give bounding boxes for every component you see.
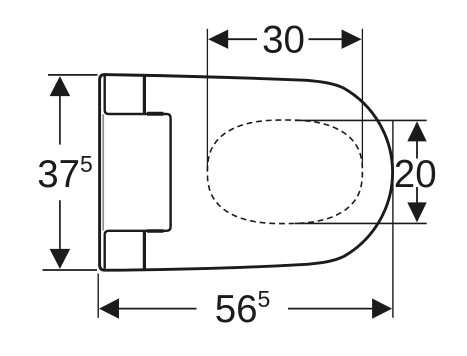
WC body outline xyxy=(100,75,393,271)
dim 20: down arrow xyxy=(407,202,426,222)
dashed bowl ellipse xyxy=(207,120,362,224)
mounting plate contour xyxy=(105,76,171,269)
dim 30: left extension line xyxy=(206,29,208,171)
dim 30: right extension line xyxy=(361,29,363,168)
dim 20: dimension line segments xyxy=(416,140,418,158)
dim 30: right arrow xyxy=(342,30,362,49)
dim 56.5: right arrow xyxy=(372,298,392,318)
hidden edge (gray) behind mounting plate xyxy=(102,114,104,230)
dim 56.5: dimension line segments xyxy=(119,308,197,310)
dim 20: top extension line xyxy=(295,119,427,121)
plate bottom edge overlap bar xyxy=(147,229,164,233)
svg-text:30: 30 xyxy=(262,19,305,62)
svg-text:20: 20 xyxy=(394,153,437,196)
dim 37.5: top extension line xyxy=(48,74,98,76)
dim 30: left arrow xyxy=(208,30,228,49)
dim 56.5: left arrow xyxy=(99,298,119,318)
dim 20: bottom extension line xyxy=(295,222,427,224)
seam line top xyxy=(143,76,146,114)
dim 37.5: down arrow xyxy=(50,249,71,269)
dim 30: dimension line segments xyxy=(227,38,257,40)
dim 20: up arrow xyxy=(407,121,426,141)
dim 56.5: left extension line xyxy=(97,274,99,318)
dim 37.5: dimension line segments xyxy=(59,95,61,145)
seam line bottom xyxy=(143,232,146,269)
plate top edge overlap bar xyxy=(147,112,164,116)
dim 56.5: right extension line xyxy=(392,120,394,317)
dim 37.5: bottom extension line xyxy=(43,269,97,271)
dim 37.5: up arrow xyxy=(50,76,71,96)
